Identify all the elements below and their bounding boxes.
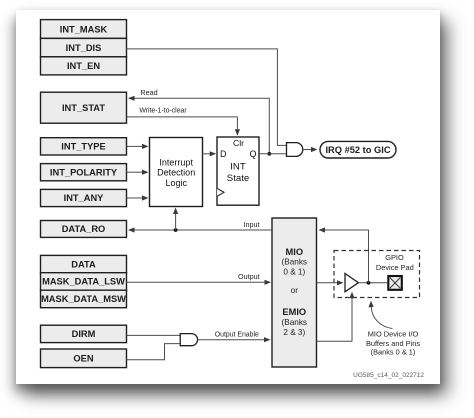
wire Output (MASK_DATA_LSW to MIO) <box>127 272 272 285</box>
svg-text:D: D <box>220 149 227 159</box>
wire input junction to detection logic <box>173 208 178 231</box>
node input junction <box>174 228 178 232</box>
wire AND to IRQ output <box>303 147 318 152</box>
svg-text:INT_POLARITY: INT_POLARITY <box>50 167 118 177</box>
svg-text:Device Pad: Device Pad <box>376 263 414 272</box>
register INT_STAT <box>41 92 127 123</box>
svg-text:IRQ #52 to GIC: IRQ #52 to GIC <box>325 145 390 155</box>
register INT_MASK <box>41 20 127 39</box>
wire INT_ANY to detection logic <box>127 195 149 200</box>
buffer tri-state <box>345 274 358 292</box>
register DIRM <box>41 325 127 342</box>
svg-text:(Banks: (Banks <box>282 318 307 327</box>
wire INT_POLARITY to detection logic <box>127 170 149 175</box>
svg-text:MIO Device I/O: MIO Device I/O <box>368 329 419 338</box>
svg-text:INT_ANY: INT_ANY <box>64 193 105 203</box>
wire Q output to AND gate <box>259 153 287 155</box>
svg-text:INT_EN: INT_EN <box>67 61 100 71</box>
svg-text:Q: Q <box>249 149 256 159</box>
svg-text:Detection: Detection <box>157 168 195 178</box>
svg-text:UG585_c14_02_022712: UG585_c14_02_022712 <box>353 372 424 379</box>
block MIO / EMIO banks <box>272 218 317 367</box>
svg-text:MASK_DATA_LSW: MASK_DATA_LSW <box>42 277 125 287</box>
svg-text:GPIO: GPIO <box>385 253 404 262</box>
node Q junction <box>267 152 271 156</box>
svg-text:DIRM: DIRM <box>72 329 96 339</box>
svg-text:Output: Output <box>238 272 260 281</box>
svg-text:0 & 1): 0 & 1) <box>283 268 305 277</box>
wire DIRM to AND gate <box>127 334 181 336</box>
svg-text:EMIO: EMIO <box>282 307 306 317</box>
block Interrupt Detection Logic <box>150 138 203 207</box>
svg-text:State: State <box>227 173 249 184</box>
svg-text:or: or <box>291 286 299 295</box>
svg-text:2 & 3): 2 & 3) <box>283 328 305 337</box>
svg-text:INT: INT <box>230 162 246 173</box>
boundary GPIO Device Pad (dashed) <box>334 251 420 298</box>
svg-text:Interrupt: Interrupt <box>159 158 193 168</box>
svg-text:Clr: Clr <box>233 138 244 148</box>
register INT_TYPE <box>41 138 127 155</box>
svg-text:OEN: OEN <box>73 354 93 364</box>
wire Input (MIO to DATA_RO) <box>128 220 272 233</box>
and-gate U1 (IRQ gate) <box>287 143 303 157</box>
pad symbol <box>388 276 402 290</box>
register DATA <box>41 255 127 272</box>
wire OEN to AND gate <box>127 344 181 360</box>
svg-text:MIO: MIO <box>286 247 304 257</box>
output IRQ #52 to GIC <box>320 141 396 158</box>
wire buffer to pad <box>358 282 388 284</box>
register MASK_DATA_MSW <box>41 290 127 308</box>
register INT_EN <box>41 57 127 75</box>
register MASK_DATA_LSW <box>41 273 127 291</box>
wire Output Enable (AND to MIO) <box>198 331 271 342</box>
svg-text:(Banks: (Banks <box>282 258 307 267</box>
svg-text:Input: Input <box>244 220 260 229</box>
wire INT_DIS to AND gate <box>127 49 287 145</box>
svg-text:INT_STAT: INT_STAT <box>62 103 105 113</box>
wire Write-1-to-clear (INT_STAT to Clr) <box>127 107 241 135</box>
wire pad to MIO input <box>319 227 369 282</box>
svg-text:DATA: DATA <box>71 259 96 269</box>
wire INT_TYPE to detection logic <box>127 144 149 149</box>
svg-text:INT_MASK: INT_MASK <box>60 25 108 35</box>
wire MIO output-enable to buffer enable <box>317 292 355 341</box>
svg-text:Read: Read <box>140 88 157 97</box>
svg-text:(Banks 0 & 1): (Banks 0 & 1) <box>371 347 416 356</box>
svg-text:MASK_DATA_MSW: MASK_DATA_MSW <box>41 294 126 304</box>
node buffer output junction <box>367 281 371 285</box>
flip-flop INT State <box>217 137 259 205</box>
register DATA_RO <box>41 221 127 238</box>
wire MIO output to buffer <box>317 280 344 285</box>
svg-text:Write-1-to-clear: Write-1-to-clear <box>139 107 187 114</box>
register INT_ANY <box>41 189 127 206</box>
svg-text:DATA_RO: DATA_RO <box>62 224 106 234</box>
register INT_DIS <box>41 38 127 56</box>
svg-text:Logic: Logic <box>165 178 187 188</box>
svg-text:INT_DIS: INT_DIS <box>66 43 102 53</box>
callout arrow MIO Device I/O <box>366 301 420 357</box>
wire detection logic to D input <box>203 151 217 156</box>
register OEN <box>41 349 127 368</box>
wire Read (Q to INT_STAT) <box>128 88 269 154</box>
and-gate U2 (output enable) <box>180 334 197 346</box>
register INT_POLARITY <box>41 164 127 181</box>
svg-text:INT_TYPE: INT_TYPE <box>61 142 105 152</box>
svg-text:Output Enable: Output Enable <box>215 331 259 338</box>
